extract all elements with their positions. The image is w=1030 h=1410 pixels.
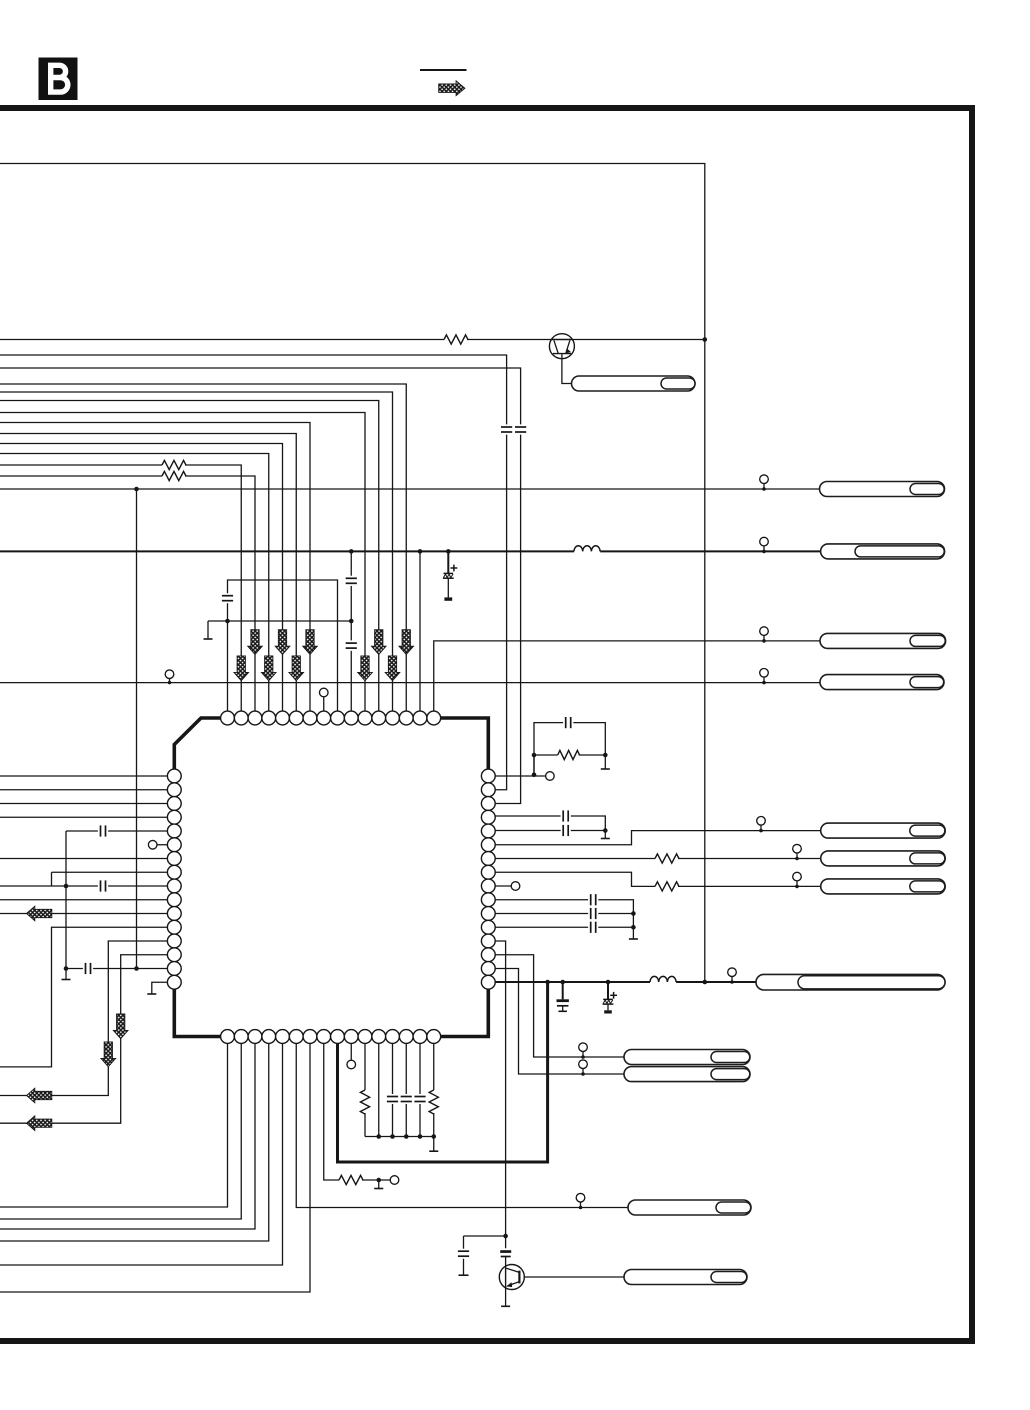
wire left pin 4 — [0, 816, 167, 818]
wire long net to connector P4 — [0, 682, 820, 684]
wire bracket over IC with C4 — [228, 580, 338, 711]
capacitor C11 — [563, 810, 568, 821]
capacitor C13 — [591, 894, 596, 905]
wire right pin 15 down to connector P11 — [495, 969, 624, 1075]
capacitor C10 — [566, 717, 571, 728]
wire to IC top pin 15 — [419, 551, 421, 711]
connector P2 — [821, 544, 945, 559]
resistor R1 — [444, 335, 468, 344]
terminal tap P4 — [760, 669, 769, 685]
test point terminal — [165, 670, 174, 684]
connector P13 — [624, 1270, 747, 1285]
wire bus line 7 to IC top pin — [0, 444, 283, 712]
wire bottom pin bus 6 out left — [0, 1043, 310, 1292]
inductor L1 — [574, 546, 600, 552]
wire right pin 1 to terminal — [495, 775, 545, 777]
signal arrow down upper 3 — [303, 630, 318, 655]
resistor R3 — [162, 471, 186, 480]
wire supply net to connector P2 — [0, 550, 821, 552]
wire Q2 base to connector P13 — [524, 1276, 624, 1278]
terminal tap P7 — [793, 872, 802, 888]
wire bus line 3 to IC top pin — [0, 401, 379, 712]
wire right pin 8 with R6 to connector P7 — [495, 872, 821, 886]
signal arrow left 2 — [27, 1088, 52, 1103]
connector P11 — [624, 1067, 750, 1082]
wire right pin 7 with R5 to connector P6 — [495, 858, 821, 860]
wire left pin 14 down with arrow and out — [0, 955, 167, 1123]
wire to C1 and right pin r1 — [0, 355, 507, 790]
wire left pin 10 — [0, 899, 167, 901]
ground bus vertical — [62, 831, 71, 980]
wire bottom pin bus 4 out left — [0, 1043, 269, 1241]
revision overline — [420, 69, 467, 71]
wire net VCC top rail with corner down to bottom rail — [0, 164, 705, 983]
capacitor C15 — [591, 922, 596, 933]
transistor Q2 — [499, 1265, 524, 1290]
node junction on base line — [703, 337, 708, 342]
thick power trace from bottom pin 9 — [338, 982, 548, 1162]
signal arrow down lower 1 — [234, 656, 249, 681]
inductor L2 — [650, 976, 676, 982]
wire right pin 14 down to connector P10 — [495, 955, 624, 1057]
wire left pin 11 with arrow — [0, 913, 167, 915]
capacitor C19 — [401, 1043, 412, 1136]
capacitor C20 — [414, 1043, 425, 1136]
terminal tap P6 — [793, 844, 802, 860]
wire bottom pin 12 to damper network — [378, 1043, 380, 1136]
signal arrow down lower 5 — [385, 656, 400, 681]
node junctions — [225, 619, 353, 624]
signal arrow down upper 1 — [248, 630, 263, 655]
wire right pin 6 to connector P5 — [495, 831, 821, 845]
terminal tap P5 — [757, 817, 766, 833]
wire left pin 8 jog — [52, 872, 168, 886]
wire left pin 15 with C9 — [66, 968, 167, 970]
node junctions — [631, 911, 636, 929]
terminal tap P2 — [760, 537, 769, 553]
wire left pin 13 down with arrow and out — [0, 941, 167, 1096]
IC1 right pins — [481, 769, 495, 989]
node junctions on bottom rail — [545, 980, 707, 985]
wire right pin 13 down to Q2 — [495, 941, 505, 1248]
node junction Q2 collector — [503, 1234, 508, 1239]
terminal tap P3 — [760, 627, 769, 643]
wire Q2 emitter ground — [501, 1288, 510, 1306]
connector P9 main output — [756, 974, 945, 990]
capacitor C18 — [387, 1043, 398, 1136]
wire bottom pin bus 2 out left — [0, 1043, 241, 1219]
wire left pin 16 ground stub — [147, 982, 167, 994]
terminal bottom pin 10 — [347, 1043, 356, 1068]
resistor R5 — [655, 854, 679, 863]
signal arrow down upper 4 — [371, 630, 386, 655]
resistor R8 to damper network — [360, 1043, 369, 1136]
capacitor C14 — [591, 908, 596, 919]
resistor R9 — [429, 1043, 438, 1136]
wire bus line 6 to IC top pin — [0, 434, 296, 712]
wire stub line with ground — [204, 621, 352, 639]
signal arrow left 1 — [27, 906, 52, 921]
page label B — [39, 58, 78, 101]
resistor R6 — [655, 882, 679, 891]
terminal tap P11 — [579, 1060, 588, 1076]
wire bus line 1 to IC top pin — [0, 384, 406, 711]
IC1 left pins — [167, 769, 181, 989]
wire right pin 11 with C14 — [495, 913, 633, 915]
wire right pin 4 with C11 — [495, 816, 605, 831]
capacitor C7 — [101, 825, 106, 836]
connector P10 — [624, 1050, 750, 1065]
connector P12 — [628, 1200, 751, 1215]
wire left pin 9 with C8 — [0, 885, 167, 887]
damper network junction rail — [365, 1134, 436, 1139]
terminal left pin 6 — [148, 840, 167, 849]
wire bottom pin bus 5 out left — [0, 1043, 283, 1265]
signal arrow left 3 — [27, 1116, 52, 1131]
wire bottom pin 8 with R7 — [324, 1043, 390, 1180]
node junctions — [64, 966, 139, 971]
resistor R4 — [558, 750, 580, 759]
wire long net to connector P1 — [0, 488, 820, 490]
node junction — [134, 487, 139, 492]
connector P1 — [820, 482, 945, 497]
connector P7 — [821, 879, 946, 894]
capacitor C12 — [563, 825, 568, 836]
wire Q1 emitter to connector P8 — [562, 354, 572, 384]
wire bus line 4 to IC top pin — [0, 413, 365, 712]
wire left pin 1 — [0, 775, 167, 777]
capacitor C1 — [501, 427, 512, 432]
terminal above IC pin 8 — [319, 688, 328, 711]
RC network loop wires — [534, 723, 610, 775]
node junction bus — [64, 884, 69, 889]
wire ground sense vertical — [136, 489, 138, 969]
wire left pin 3 — [0, 803, 167, 805]
signal arrow down lower 3 — [289, 656, 304, 681]
signal arrow down lower 2 — [261, 656, 276, 681]
signal arrow down lower 4 — [358, 656, 373, 681]
wire to connector P3 from top pin 16 — [434, 641, 820, 711]
wire left pin 5 with C7 to ground bus — [66, 830, 167, 832]
wire bottom pin bus 3 out left — [0, 1043, 255, 1229]
capacitor C6 — [346, 643, 357, 648]
capacitor C5 — [346, 578, 357, 583]
connector P3 — [820, 633, 946, 648]
capacitor C4 — [222, 596, 233, 601]
wire left pin 7 — [0, 858, 167, 860]
capacitor C9 — [86, 963, 91, 974]
wire Q1 base line — [0, 339, 705, 341]
ground stub R7 — [374, 1178, 383, 1189]
revision arrow — [439, 81, 465, 96]
wire bus line 2 to IC top pin — [0, 392, 393, 711]
terminal right pin 9 — [495, 882, 520, 891]
capacitor C21 branch — [458, 1236, 506, 1275]
wire bottom pin 6 to connector P12 — [296, 1043, 628, 1207]
capacitor C2 — [515, 427, 526, 432]
wire left pin 12 down and out — [0, 927, 167, 1067]
node junctions on supply net — [349, 549, 451, 554]
wire right pin 10 with C13 — [495, 900, 638, 939]
signal arrow down upper 5 — [399, 630, 414, 655]
wire bus line 5 to IC top pin — [0, 423, 310, 712]
signal arrow down B — [113, 1014, 128, 1039]
terminal tap P9 — [728, 968, 737, 984]
wire right pin 16 bottom rail to connector P9 — [495, 981, 756, 983]
wire right pin 5 with C12 — [495, 831, 610, 839]
terminal tap P1 — [760, 475, 769, 491]
resistor R2 — [162, 460, 186, 469]
capacitor C8 — [101, 880, 106, 891]
capacitor C16 below rail — [557, 982, 569, 1011]
resistor R7 — [339, 1175, 363, 1184]
wire with R3 to IC top pin — [0, 476, 255, 711]
wire C5 C6 chain to IC top pin — [350, 551, 352, 711]
terminal — [546, 772, 555, 781]
electrolytic capacitor C3 — [443, 551, 457, 600]
IC1 bottom pins — [221, 1030, 441, 1044]
wire bottom pin bus 1 out left — [0, 1043, 228, 1207]
signal arrow down A — [101, 1042, 116, 1067]
wire left pin 2 — [0, 789, 167, 791]
electrolytic capacitor C17 below rail — [603, 982, 617, 1014]
signal arrow down upper 2 — [275, 630, 290, 655]
wire bus line 8 to IC top pin — [0, 454, 269, 712]
node junctions — [532, 753, 608, 777]
terminal tap P10 — [579, 1043, 588, 1059]
terminal R7 — [390, 1176, 399, 1185]
terminal tap P12 — [576, 1193, 585, 1209]
op-amp / microcontroller IC1 body — [174, 718, 488, 1037]
connector P6 — [821, 851, 946, 866]
ground stub damper network — [429, 1137, 438, 1152]
wire to C2 and right pin r2 — [0, 368, 521, 804]
IC1 top pins — [221, 711, 441, 725]
node junction — [603, 828, 608, 833]
connector P4 — [820, 675, 944, 690]
transistor Q1 — [549, 334, 574, 359]
polarized capacitor C22 — [500, 1250, 511, 1266]
wire with R2 to IC top pin — [0, 465, 241, 711]
wire right pin 12 with C15 — [495, 926, 633, 928]
connector P5 — [821, 823, 946, 838]
connector P8 at Q1 — [572, 376, 696, 391]
